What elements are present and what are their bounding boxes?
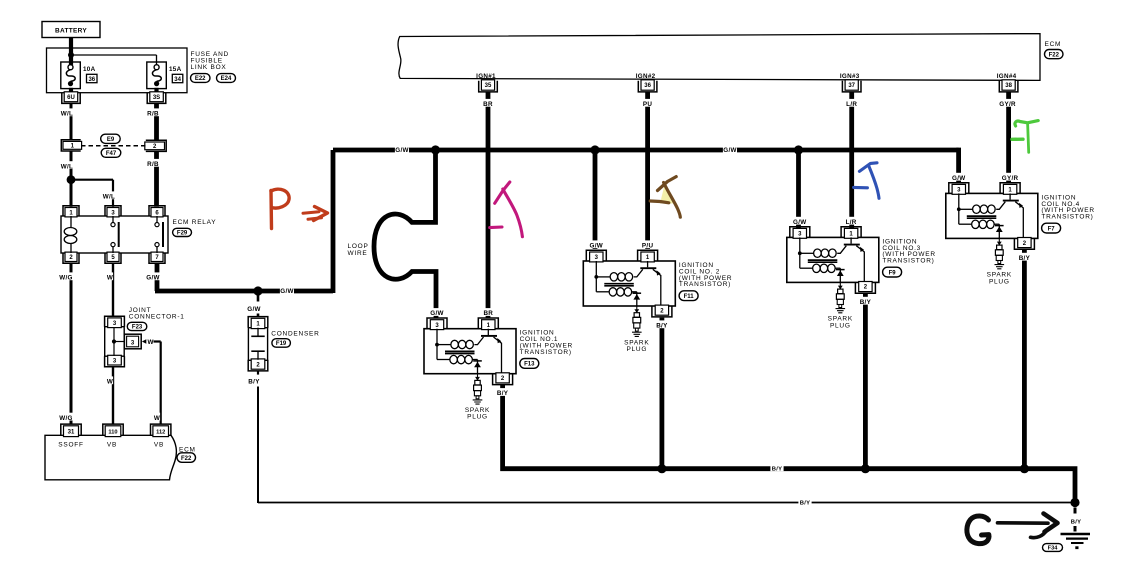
ground symbol F34	[1061, 534, 1091, 549]
svg-text:IGN#1: IGN#1	[476, 73, 496, 80]
coil 3 pin 1	[841, 227, 861, 239]
node battery feed junction	[68, 52, 74, 58]
svg-text:LINK BOX: LINK BOX	[191, 64, 227, 71]
label SPARK PLUG coil 1	[465, 407, 490, 421]
wire W joint connector to ECM pin 110	[112, 367, 114, 425]
svg-text:36: 36	[88, 77, 95, 83]
spark plug of coil 4	[995, 238, 1005, 268]
node B/Y bus junction coil 3	[861, 464, 870, 473]
label IGNITION COIL NO.2	[679, 262, 732, 288]
connector E9/F47 pin 2	[145, 140, 166, 151]
svg-text:B/Y: B/Y	[1019, 255, 1031, 262]
svg-text:G/W: G/W	[952, 175, 966, 182]
svg-text:G/W: G/W	[280, 288, 294, 295]
battery	[42, 22, 100, 38]
wire L/R IGN#3 to coil 3	[849, 92, 854, 228]
wire W/L fuse to connector E9 pin 1	[70, 103, 73, 139]
svg-text:F22: F22	[1049, 52, 1060, 58]
svg-text:ECM RELAY: ECM RELAY	[173, 219, 217, 226]
svg-text:W/G: W/G	[59, 415, 73, 422]
ECM box top F22	[398, 34, 1040, 81]
ECM relay pin 3	[105, 206, 121, 217]
wire G/W riser to top bus	[331, 150, 336, 293]
coil 4 pin 3	[949, 183, 969, 195]
svg-text:G/W: G/W	[146, 275, 160, 282]
connector pin 6U	[62, 92, 80, 104]
connector label F47	[101, 148, 121, 157]
coil 1 pin 2	[493, 373, 513, 385]
wire G/W top bus	[333, 148, 959, 153]
coil label F13	[520, 359, 539, 369]
condenser pin 1	[248, 317, 268, 329]
svg-text:IGN#4: IGN#4	[997, 73, 1017, 80]
node B/Y bus junction coil 4	[1020, 464, 1029, 473]
svg-text:L/R: L/R	[846, 101, 857, 108]
svg-text:W/L: W/L	[61, 163, 73, 170]
ignition coil no.2 (F11)	[583, 261, 675, 306]
svg-text:BATTERY: BATTERY	[55, 28, 87, 35]
joint connector-1 F23 body	[105, 327, 125, 357]
wire G/W bus corner to coil 4 pin 3	[956, 150, 958, 183]
svg-text:VB: VB	[107, 441, 117, 448]
svg-text:PLUG: PLUG	[626, 346, 647, 353]
condenser F19 body	[248, 328, 267, 361]
svg-text:CONNECTOR-1: CONNECTOR-1	[129, 313, 185, 320]
svg-text:112: 112	[156, 429, 165, 435]
wire B/Y coil 2 down	[660, 318, 665, 469]
annotation pink check mark at coil 1	[490, 182, 523, 237]
label SPARK PLUG coil 2	[624, 339, 649, 353]
svg-text:E24: E24	[221, 76, 232, 82]
svg-text:W: W	[148, 339, 154, 346]
wire battery feed into fuse 10A	[69, 62, 73, 65]
annotation yellow highlight at coil 2	[660, 185, 674, 204]
svg-text:W/L: W/L	[103, 194, 115, 201]
svg-text:G/W: G/W	[247, 306, 261, 313]
connector label E24	[217, 74, 236, 83]
connector E9/F47 pin 1	[61, 140, 81, 151]
node B/Y ground junction	[1070, 498, 1079, 507]
ECM pin 36 IGN#2	[638, 80, 657, 92]
svg-text:R/B: R/B	[147, 111, 159, 118]
ECM relay box F29	[61, 216, 168, 253]
label SPARK PLUG coil 4	[987, 272, 1012, 286]
label fuse number 36	[87, 74, 98, 83]
svg-text:BR: BR	[483, 310, 493, 317]
ECM relay pin 2	[63, 252, 79, 263]
svg-text:15A: 15A	[169, 66, 182, 73]
loop wire	[374, 150, 436, 318]
relay coil	[64, 216, 77, 253]
svg-text:G/W: G/W	[395, 147, 409, 154]
coil label F9	[883, 267, 902, 277]
svg-text:F29: F29	[177, 231, 188, 237]
svg-text:W: W	[107, 379, 113, 386]
joint connector side pin 3	[124, 334, 141, 349]
joint connector top pin 3	[105, 316, 125, 327]
wire B/Y condenser stub	[257, 371, 259, 375]
wire W/G relay pin 2 to ECM pin 31	[70, 263, 73, 424]
ECM relay pin 1	[63, 206, 79, 217]
svg-text:GY/R: GY/R	[999, 101, 1016, 108]
spark plug of coil 2	[632, 306, 642, 336]
svg-text:W/G: W/G	[59, 275, 73, 282]
svg-text:F22: F22	[181, 456, 192, 462]
coil 4 pin 1	[1000, 183, 1020, 195]
ECM relay pin 6	[149, 206, 165, 217]
ECM relay pin 5	[105, 252, 121, 263]
node G/W bus junction coil 1	[431, 145, 440, 154]
svg-text:B/Y: B/Y	[1071, 520, 1082, 526]
svg-text:F7: F7	[1048, 226, 1056, 232]
svg-text:10A: 10A	[83, 66, 96, 73]
svg-text:G/W: G/W	[723, 147, 737, 154]
svg-text:ECM: ECM	[1045, 41, 1062, 48]
svg-text:B/Y: B/Y	[772, 467, 783, 473]
ECM label F22 top	[1045, 50, 1064, 59]
wire B/Y coil 3 down	[863, 294, 868, 469]
svg-text:31: 31	[68, 429, 75, 435]
wire fuse 10A to connector 6U	[69, 88, 73, 94]
ECM pin 112	[151, 424, 171, 436]
svg-text:VB: VB	[154, 441, 164, 448]
annotation green check mark at coil 4	[1012, 121, 1038, 153]
coil 2 pin 2	[652, 305, 672, 317]
svg-text:F9: F9	[889, 270, 897, 276]
svg-text:E22: E22	[195, 76, 206, 82]
node G/W bus junction coil 3	[794, 145, 803, 154]
wire PU IGN#2 to coil 2	[645, 92, 650, 249]
label IGNITION COIL NO.1	[520, 330, 573, 356]
wire junction to fuse 15A	[71, 54, 157, 56]
ECM pin 38 IGN#4	[999, 80, 1018, 92]
wire battery to fuse 10A	[69, 38, 73, 63]
joint connector bottom pin 3	[105, 355, 125, 366]
svg-text:F47: F47	[106, 151, 117, 157]
svg-text:B/Y: B/Y	[248, 379, 260, 386]
wire fuse 15A to connector 3S	[154, 88, 158, 94]
svg-text:G/W: G/W	[590, 243, 604, 250]
coil label F11	[679, 291, 698, 301]
wire BR IGN#1 to coil 1	[486, 92, 491, 318]
coil 2 pin 3	[586, 250, 606, 262]
svg-text:R/B: R/B	[147, 161, 159, 168]
wire B/Y condenser down to ground line	[257, 387, 259, 504]
svg-text:6U: 6U	[67, 95, 75, 101]
svg-text:TRANSISTOR): TRANSISTOR)	[1041, 214, 1093, 221]
svg-text:37: 37	[848, 83, 855, 89]
spark plug of coil 1	[473, 374, 483, 404]
wire feed into fuse 15A	[156, 62, 158, 65]
wire B/Y dashed to ground	[1074, 508, 1077, 514]
coil 3 pin 3	[790, 227, 810, 239]
label fuse number 34	[172, 74, 183, 83]
coil 1 pin 1	[478, 318, 498, 330]
wire G/W relay pin 7 down	[155, 263, 160, 291]
svg-text:G/W: G/W	[430, 310, 444, 317]
svg-text:L/R: L/R	[846, 219, 857, 226]
connector pin 3S	[147, 92, 166, 104]
svg-text:F34: F34	[1048, 546, 1059, 552]
relay contact pins 6-7	[155, 216, 163, 253]
ECM pin 110	[103, 424, 123, 436]
svg-text:W: W	[107, 275, 113, 282]
svg-text:110: 110	[108, 429, 117, 435]
svg-text:F11: F11	[684, 294, 695, 300]
wire G/W to coil 3 pin 3	[796, 150, 801, 228]
ECM box bottom-left F22	[45, 435, 176, 480]
wire W to ECM pin 112	[160, 342, 162, 425]
svg-text:W: W	[154, 415, 160, 422]
wire B/Y coil 4 down	[1022, 250, 1027, 469]
wire W/L branch horizontal	[71, 179, 113, 181]
annotation blue check mark at coil 3	[854, 163, 879, 199]
ECM pin 35 IGN#1	[479, 80, 498, 92]
joint connector label F23	[127, 322, 147, 330]
svg-text:B/Y: B/Y	[497, 390, 509, 397]
svg-text:36: 36	[644, 83, 651, 89]
wire B/Y coil 1 down and bottom bus	[503, 385, 1075, 503]
ignition coil no.1 (F13)	[424, 329, 516, 374]
svg-text:B/Y: B/Y	[656, 323, 668, 330]
label SPARK PLUG coil 3	[828, 316, 853, 330]
svg-text:SSOFF: SSOFF	[58, 441, 83, 448]
ECM relay pin 7	[149, 252, 165, 263]
node W/L branch junction	[67, 175, 76, 184]
ignition coil no.4 (F7)	[946, 193, 1038, 238]
svg-text:PLUG: PLUG	[989, 278, 1010, 285]
arrow into side pin	[142, 339, 146, 344]
wire GY/R IGN#4 to coil 4	[1006, 92, 1011, 183]
annotation black G with arrow	[967, 514, 1058, 544]
wire B/Y thin ground line	[258, 502, 1075, 504]
svg-text:PLUG: PLUG	[830, 322, 851, 329]
wire W relay pin 5 to joint connector	[112, 263, 114, 317]
svg-text:W/L: W/L	[61, 111, 73, 118]
coil 1 pin 3	[427, 318, 447, 330]
connector label E9	[101, 134, 121, 143]
svg-text:P/U: P/U	[642, 243, 654, 250]
coil 1 internals: transformer, transistor, diode	[437, 329, 502, 374]
wire G/W horizontal to bus riser	[155, 289, 333, 294]
coil 2 internals: transformer, transistor, diode	[596, 261, 661, 306]
wire W/L connector to ECM relay pin 1	[70, 151, 73, 207]
svg-text:PLUG: PLUG	[467, 414, 488, 421]
ECM pin 31	[61, 424, 81, 436]
svg-text:F23: F23	[132, 325, 143, 331]
svg-text:BR: BR	[483, 101, 493, 108]
ignition coil no.3 (F9)	[787, 237, 879, 282]
wire R/B connector to ECM relay pin 6	[154, 151, 159, 206]
condenser pin 2	[248, 359, 268, 371]
svg-text:TRANSISTOR): TRANSISTOR)	[882, 258, 934, 265]
connector label E22	[191, 74, 211, 83]
fuse 10A (36)	[61, 62, 81, 89]
coil 3 pin 2	[855, 282, 875, 294]
fuse 15A (34)	[147, 62, 167, 89]
label JOINT CONNECTOR-1	[129, 307, 185, 321]
coil 4 pin 2	[1014, 238, 1034, 250]
svg-text:E9: E9	[107, 137, 115, 143]
svg-text:3S: 3S	[153, 95, 160, 101]
coil 2 pin 1	[638, 250, 658, 262]
svg-text:F19: F19	[276, 341, 287, 347]
svg-text:GY/R: GY/R	[1002, 175, 1019, 182]
wire G/W to coil 2 pin 3	[593, 150, 598, 249]
wire G/W dashed to condenser	[257, 296, 260, 302]
fuse and fusible link box	[47, 48, 188, 93]
svg-text:B/Y: B/Y	[860, 299, 872, 306]
wire W/L branch to ECM relay pin 3	[112, 180, 114, 207]
svg-text:IGN#2: IGN#2	[636, 73, 656, 80]
condenser label F19	[272, 339, 291, 348]
wire R/B fuse to connector F47 pin 2	[154, 103, 159, 140]
svg-text:38: 38	[1005, 83, 1012, 89]
node G/W junction at condenser	[253, 286, 262, 295]
svg-text:IGN#3: IGN#3	[840, 73, 860, 80]
svg-text:TRANSISTOR): TRANSISTOR)	[520, 349, 572, 356]
wire down to fuse 15A	[156, 55, 158, 63]
svg-text:35: 35	[485, 83, 492, 89]
joint connector internal bus	[112, 327, 125, 356]
svg-text:B/Y: B/Y	[800, 500, 811, 506]
svg-text:G/W: G/W	[793, 219, 807, 226]
svg-text:34: 34	[174, 77, 181, 83]
svg-text:WIRE: WIRE	[348, 250, 368, 257]
svg-text:F13: F13	[524, 362, 535, 368]
spark plug of coil 3	[836, 282, 846, 312]
node G/W bus junction coil 2	[590, 145, 599, 154]
label LOOP WIRE	[348, 243, 369, 257]
ECM pin 37 IGN#3	[842, 80, 861, 92]
relay label F29	[173, 228, 192, 236]
annotation brown check mark at coil 2	[650, 177, 680, 218]
node B/Y bus junction coil 2	[657, 464, 666, 473]
coil label F7	[1042, 223, 1061, 233]
wire W from side pin	[154, 340, 161, 342]
ECM label F22 bottom	[177, 453, 196, 463]
svg-text:TRANSISTOR): TRANSISTOR)	[679, 281, 731, 288]
svg-text:CONDENSER: CONDENSER	[271, 330, 319, 337]
annotation orange P with arrow	[271, 189, 328, 228]
svg-text:PU: PU	[643, 101, 652, 108]
label IGNITION COIL NO.4	[1041, 194, 1094, 220]
condenser capacitor symbol	[251, 328, 264, 360]
label FUSE AND FUSIBLE LINK BOX	[191, 51, 230, 71]
coil 4 internals: transformer, transistor, diode	[959, 193, 1024, 238]
ground label F34	[1043, 544, 1063, 552]
label IGNITION COIL NO.3	[882, 238, 935, 264]
relay contact pins 3-5	[111, 216, 119, 253]
wire dashed connector link E9 to F47	[81, 145, 146, 147]
coil 3 internals: transformer, transistor, diode	[800, 237, 865, 282]
